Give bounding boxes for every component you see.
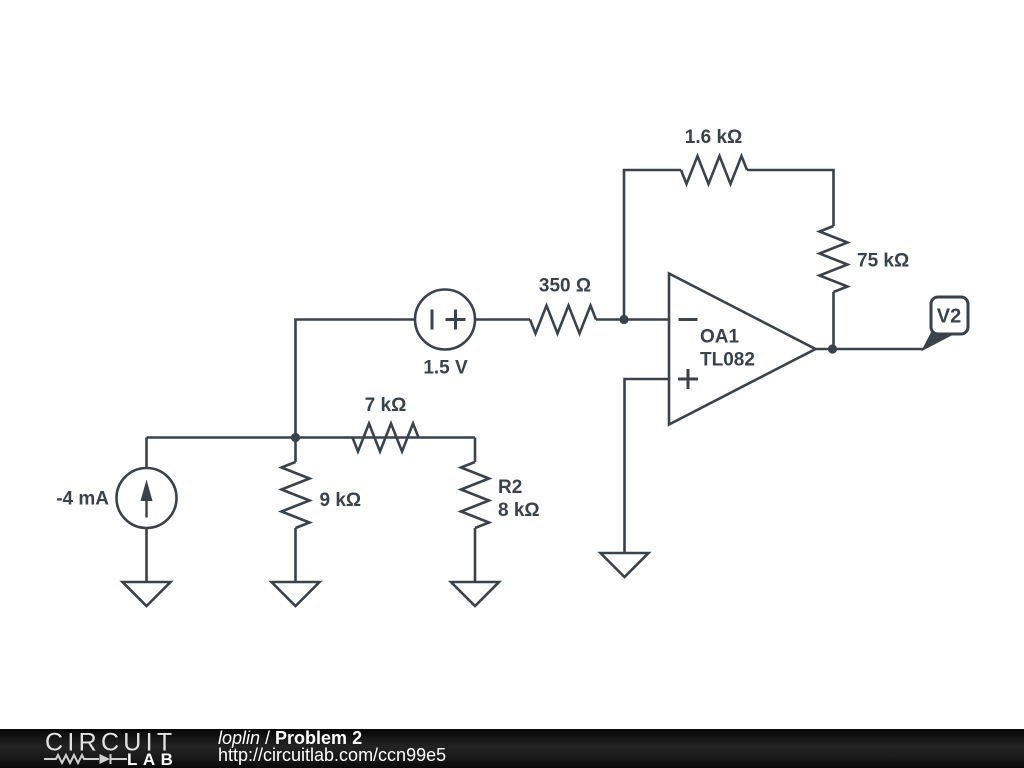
V2 probe flag pointer xyxy=(924,332,950,350)
wire current source top xyxy=(145,438,148,469)
wire non-inverting input to ground xyxy=(625,379,670,553)
svg-text:OA1: OA1 xyxy=(700,327,740,348)
wire vsource to 350 ohm xyxy=(475,318,530,321)
svg-text:7 kΩ: 7 kΩ xyxy=(365,395,407,416)
node junction A (inverting input) xyxy=(619,315,628,324)
wire 75k to output node xyxy=(832,292,835,349)
wire 9k bottom xyxy=(294,528,297,582)
footer bar xyxy=(0,729,1024,768)
wire current source bottom xyxy=(145,528,148,582)
svg-text:1.6 kΩ: 1.6 kΩ xyxy=(685,127,743,148)
wire from node up to voltage source xyxy=(296,320,416,438)
footer credit text xyxy=(218,730,446,764)
ground under op-amp plus input xyxy=(601,553,649,577)
ground under 9k xyxy=(272,582,320,606)
current source I1 -4 mA xyxy=(117,468,177,528)
node junction B (main row) xyxy=(291,433,300,442)
resistor R2 8 kOhm vertical xyxy=(461,462,489,528)
resistor 75 kOhm vertical xyxy=(820,226,848,292)
svg-text:75 kΩ: 75 kΩ xyxy=(857,251,909,272)
svg-text:350 Ω: 350 Ω xyxy=(539,276,591,297)
svg-text:TL082: TL082 xyxy=(700,350,755,371)
svg-text:1.5 V: 1.5 V xyxy=(423,358,468,379)
ground under R2 xyxy=(451,582,499,606)
wire 9k top stub xyxy=(294,438,297,463)
wire R2 top stub xyxy=(474,438,477,463)
resistor 7 kOhm horizontal xyxy=(353,424,419,452)
resistor 350 Ohm horizontal xyxy=(530,306,596,334)
resistor 1.6 kOhm horizontal feedback xyxy=(681,156,747,184)
svg-text:8 kΩ: 8 kΩ xyxy=(498,500,540,521)
wire main horizontal node row xyxy=(147,436,476,439)
op-amp OA1 TL082 xyxy=(669,274,816,425)
wire feedback left vertical and top xyxy=(624,170,681,320)
resistor 9 kOhm vertical xyxy=(282,462,310,528)
svg-text:LAB: LAB xyxy=(127,750,178,768)
svg-text:9 kΩ: 9 kΩ xyxy=(320,490,362,511)
svg-text:-4 mA: -4 mA xyxy=(56,489,109,510)
wire R2 bottom xyxy=(474,528,477,582)
V2 probe flag box xyxy=(931,297,968,334)
wire 350 ohm to inverting node xyxy=(596,318,669,321)
wire op-amp output xyxy=(816,348,924,351)
logo resistor-diode line art xyxy=(44,754,127,764)
svg-text:V2: V2 xyxy=(937,306,961,328)
wire feedback top right corner down xyxy=(747,170,834,226)
ground under current source xyxy=(123,582,171,606)
node junction C (output) xyxy=(828,344,837,353)
voltage source V1 1.5 V xyxy=(415,290,475,350)
svg-text:R2: R2 xyxy=(498,477,522,498)
